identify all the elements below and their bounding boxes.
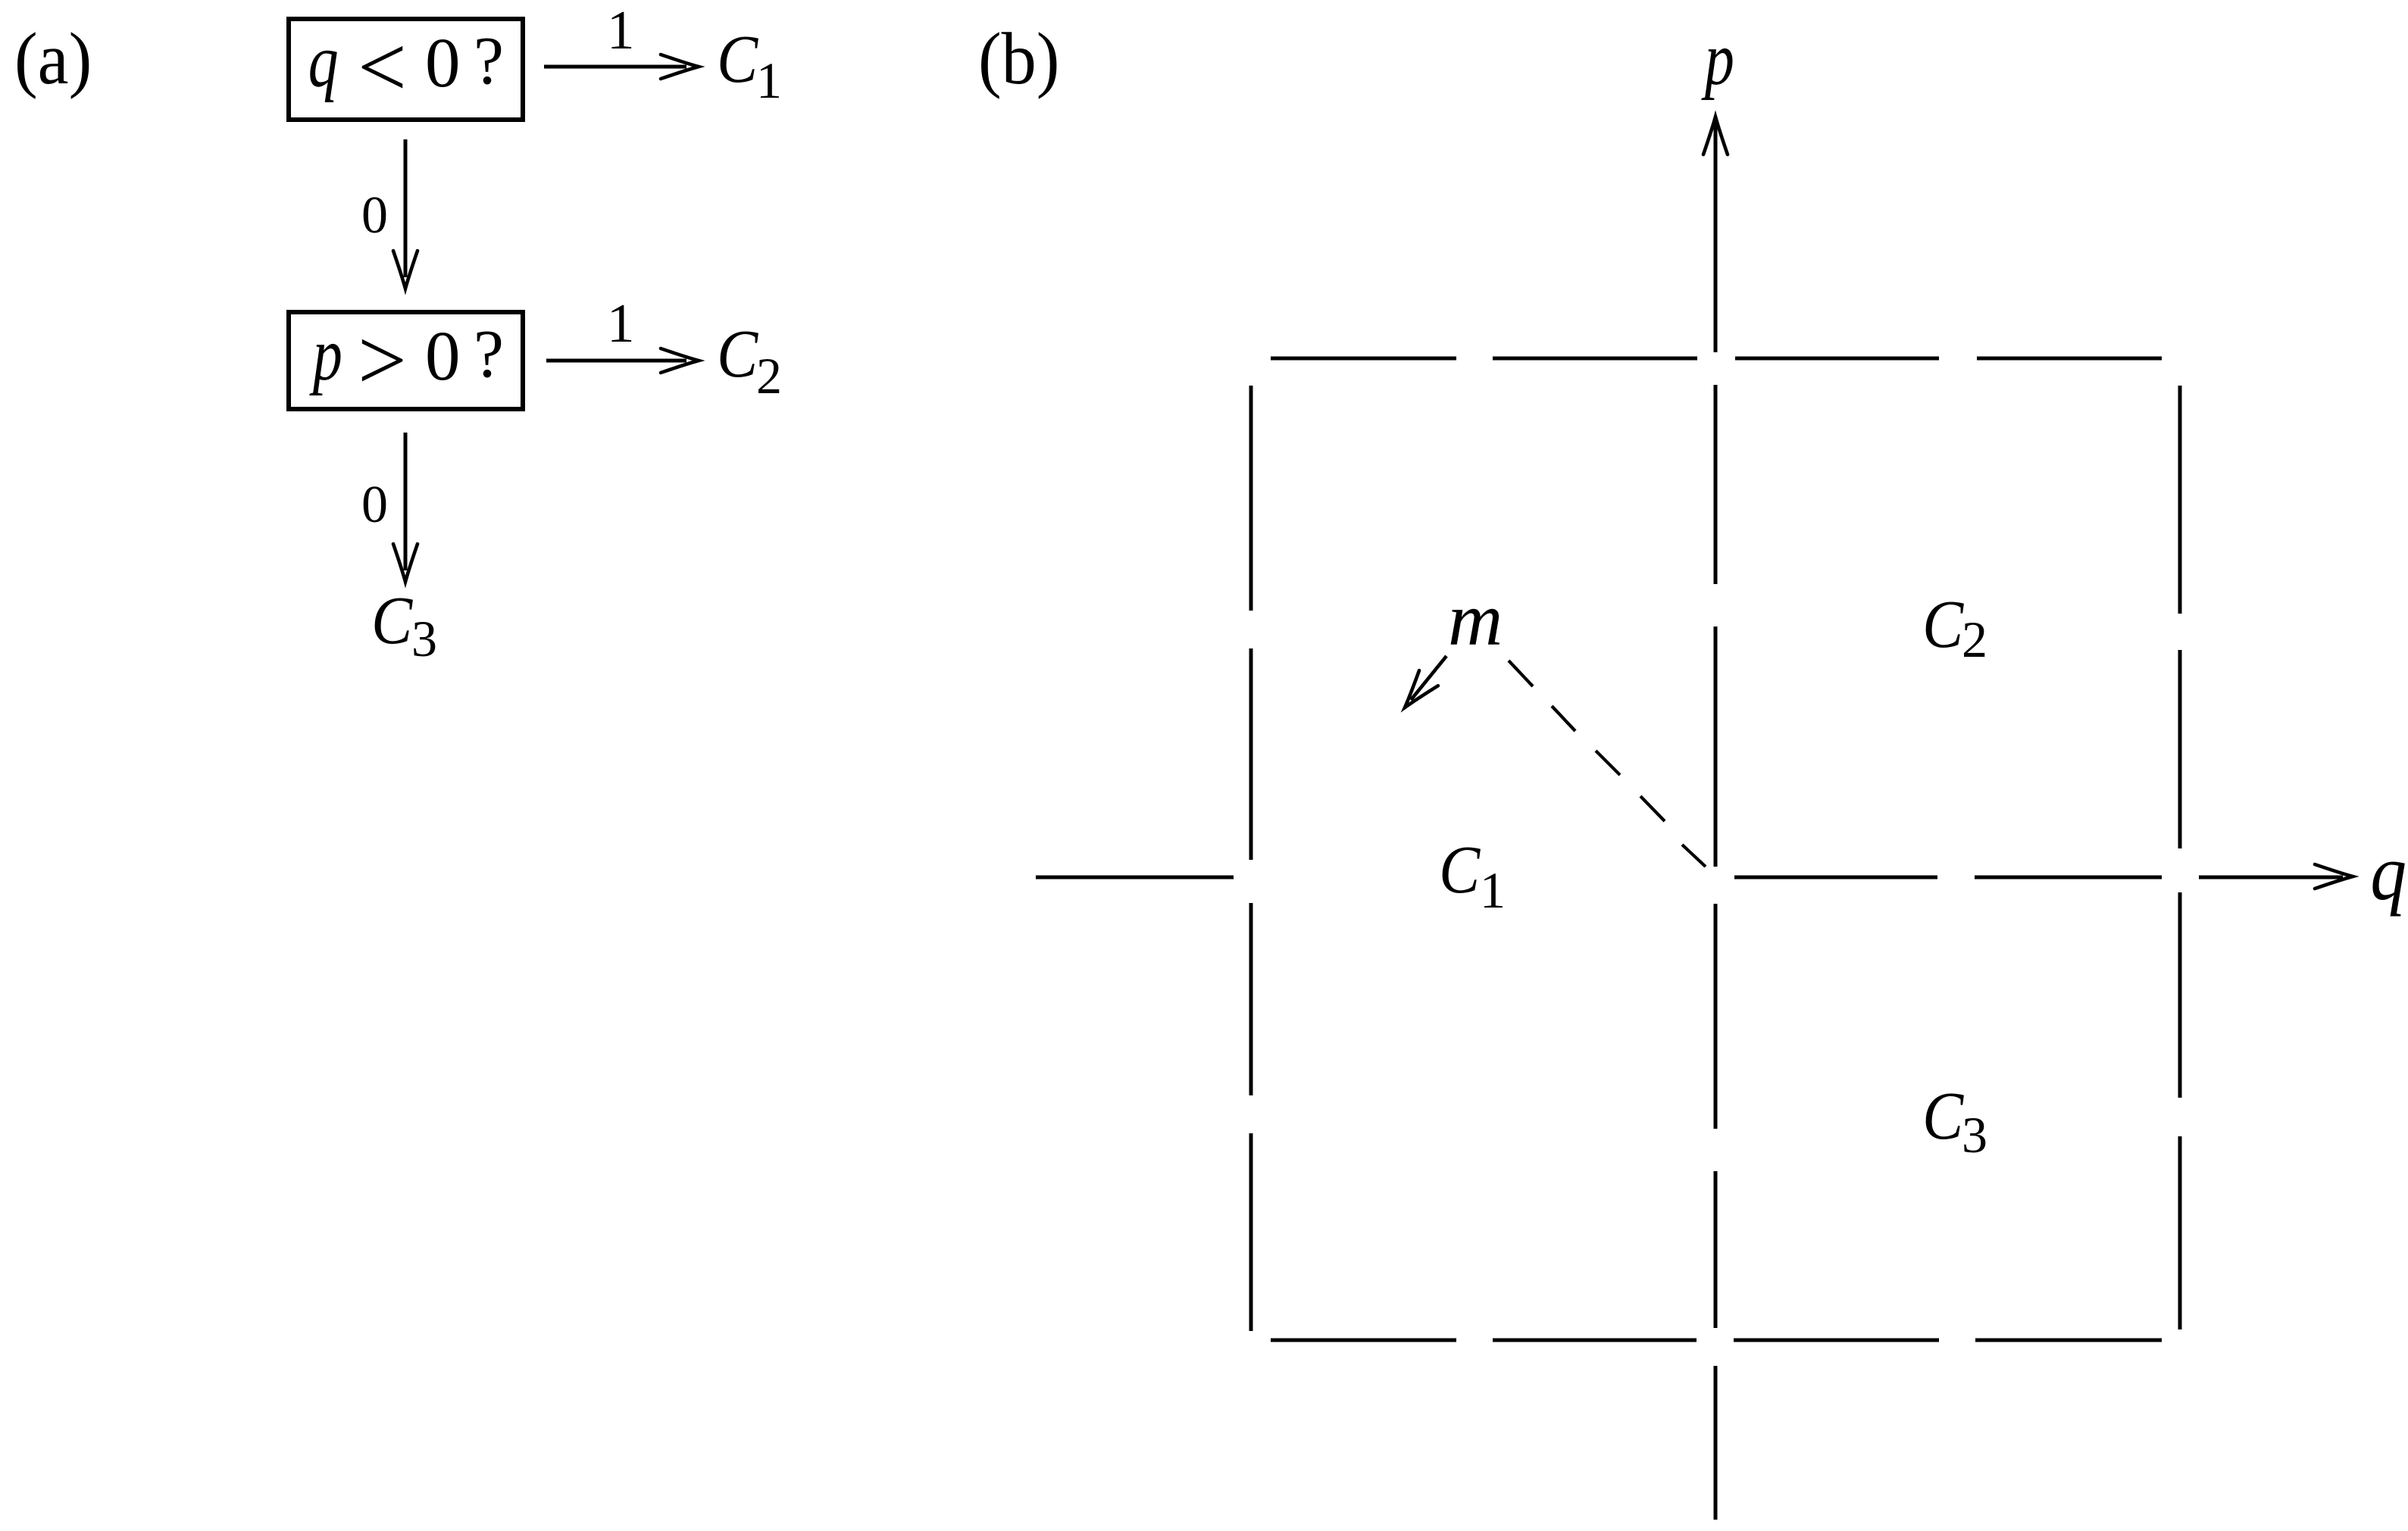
svg-text:C: C: [371, 583, 413, 658]
svg-text:p: p: [1701, 17, 1734, 101]
decision box Q2: p > 0 ?: [289, 312, 523, 409]
arrow from Q1 down to Q2, labeled 0: [404, 139, 408, 277]
p axis (vertical) with arrowhead and label p: [1714, 123, 1718, 352]
svg-text:2: 2: [756, 347, 782, 405]
svg-text:1: 1: [756, 52, 782, 109]
svg-text:?: ?: [474, 317, 504, 392]
svg-text:(b): (b): [978, 19, 1059, 100]
svg-text:C: C: [1922, 586, 1964, 662]
svg-text:0: 0: [361, 476, 388, 534]
arrow from Q2 down to C3, labeled 0: [404, 433, 408, 570]
svg-text:p: p: [309, 313, 342, 396]
arrow from Q1 to C1, labeled 1: [544, 65, 686, 69]
dashed square bottom border: [1271, 1339, 1456, 1342]
svg-text:(a): (a): [14, 19, 92, 100]
svg-text:C: C: [717, 316, 758, 392]
q axis left segment (outside square): [1036, 876, 1234, 880]
dashed leader line from m to origin: [1509, 661, 1533, 686]
svg-text:q: q: [2370, 829, 2406, 917]
svg-text:0: 0: [425, 317, 461, 395]
svg-text:?: ?: [474, 23, 504, 98]
svg-text:<: <: [358, 19, 407, 115]
svg-text:C: C: [1439, 832, 1481, 908]
dashed square right border: [2178, 386, 2182, 614]
svg-text:2: 2: [1962, 611, 1987, 668]
svg-text:0: 0: [425, 24, 461, 102]
svg-text:1: 1: [1480, 861, 1506, 919]
svg-text:0: 0: [361, 186, 388, 245]
svg-text:C: C: [717, 21, 758, 97]
svg-text:3: 3: [411, 610, 437, 667]
svg-text:q: q: [308, 19, 339, 104]
svg-text:m: m: [1448, 577, 1503, 661]
dashed square left border: [1249, 386, 1253, 611]
dashed square top border: [1271, 357, 1456, 361]
arrow from Q2 to C2, labeled 1: [546, 359, 686, 363]
svg-text:C: C: [1922, 1078, 1964, 1154]
svg-text:>: >: [358, 312, 407, 408]
q axis right segments with arrowhead and label q: [1734, 876, 1937, 880]
svg-text:1: 1: [607, 0, 635, 61]
decision box Q1: q < 0 ?: [289, 19, 523, 120]
svg-text:3: 3: [1962, 1106, 1987, 1164]
dashed center vertical line (p axis inside square and below): [1714, 385, 1718, 584]
svg-text:1: 1: [607, 292, 635, 354]
